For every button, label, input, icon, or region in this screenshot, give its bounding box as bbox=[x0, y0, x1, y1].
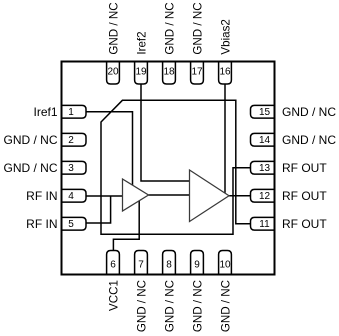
pin 19 bbox=[135, 63, 148, 85]
svg-text:GND / NC: GND / NC bbox=[163, 2, 176, 54]
svg-text:5: 5 bbox=[68, 219, 74, 230]
pin 15 bbox=[251, 105, 274, 118]
svg-text:GND / NC: GND / NC bbox=[107, 2, 120, 54]
pin 6 bbox=[107, 251, 120, 274]
wire: Iref1 pin1 to amp1 top edge bbox=[86, 112, 133, 185]
svg-text:Vbias2: Vbias2 bbox=[219, 19, 232, 54]
pin 17 bbox=[191, 63, 204, 85]
wire: amp1 output to amp2 input bbox=[149, 194, 190, 196]
svg-text:20: 20 bbox=[107, 67, 119, 78]
pin 1 bbox=[63, 105, 87, 118]
svg-text:GND / NC: GND / NC bbox=[163, 280, 176, 332]
pin 9 bbox=[191, 251, 204, 274]
svg-text:GND / NC: GND / NC bbox=[282, 133, 336, 147]
pin 4 bbox=[63, 189, 87, 202]
svg-text:GND / NC: GND / NC bbox=[4, 161, 58, 175]
pin 14 bbox=[251, 133, 274, 146]
svg-text:GND / NC: GND / NC bbox=[191, 280, 204, 332]
svg-text:RF IN: RF IN bbox=[26, 189, 57, 203]
wire: RF IN pin4 to amp1 input bbox=[86, 195, 123, 197]
svg-text:VCC1: VCC1 bbox=[107, 280, 120, 311]
svg-text:7: 7 bbox=[138, 260, 144, 271]
svg-text:15: 15 bbox=[259, 107, 271, 118]
wire: RF OUT bus pin13 loop around to pin11 bbox=[101, 100, 251, 234]
svg-text:GND / NC: GND / NC bbox=[282, 105, 336, 119]
wire: amp2 output to pin12 bbox=[229, 195, 251, 197]
svg-text:11: 11 bbox=[259, 219, 270, 230]
svg-text:GND / NC: GND / NC bbox=[219, 280, 232, 332]
svg-text:GND / NC: GND / NC bbox=[135, 280, 148, 332]
svg-text:14: 14 bbox=[259, 135, 271, 146]
svg-text:13: 13 bbox=[259, 163, 271, 174]
wire: Iref2 pin19 down then right to amp2 input edge bbox=[141, 84, 190, 181]
svg-text:19: 19 bbox=[135, 67, 147, 78]
svg-text:17: 17 bbox=[191, 67, 203, 78]
pin 2 bbox=[63, 133, 87, 146]
pin 11 bbox=[251, 217, 274, 230]
IC package body U1 bbox=[62, 62, 275, 275]
svg-text:8: 8 bbox=[166, 260, 172, 271]
svg-text:12: 12 bbox=[259, 191, 271, 202]
op-amp A1 first stage bbox=[123, 179, 149, 211]
pin 10 bbox=[219, 251, 232, 274]
svg-text:3: 3 bbox=[68, 163, 74, 174]
svg-text:Iref2: Iref2 bbox=[135, 31, 148, 54]
svg-text:4: 4 bbox=[68, 191, 74, 202]
svg-text:2: 2 bbox=[68, 135, 74, 146]
wire: RF IN pin5 tie up to pin4 wire bbox=[86, 196, 111, 223]
svg-text:1: 1 bbox=[68, 107, 74, 118]
pin 18 bbox=[163, 63, 176, 85]
svg-text:6: 6 bbox=[110, 260, 116, 271]
pin 12 bbox=[251, 189, 274, 202]
svg-text:GND / NC: GND / NC bbox=[4, 133, 58, 147]
pin 20 bbox=[107, 63, 120, 85]
svg-text:18: 18 bbox=[163, 67, 175, 78]
svg-text:10: 10 bbox=[219, 260, 231, 271]
pin 7 bbox=[135, 251, 148, 274]
pin 16 bbox=[219, 63, 232, 85]
svg-text:RF OUT: RF OUT bbox=[282, 161, 327, 175]
pin 8 bbox=[163, 251, 176, 274]
pin 5 bbox=[63, 217, 87, 230]
svg-text:RF OUT: RF OUT bbox=[282, 189, 327, 203]
op-amp A2 second stage bbox=[190, 170, 230, 222]
svg-text:RF IN: RF IN bbox=[26, 217, 57, 231]
pin 13 bbox=[251, 161, 274, 174]
svg-text:GND / NC: GND / NC bbox=[191, 2, 204, 54]
wire: Vbias2 pin16 down to amp2 top edge bbox=[224, 84, 226, 193]
svg-text:RF OUT: RF OUT bbox=[282, 217, 327, 231]
svg-text:9: 9 bbox=[194, 260, 200, 271]
svg-text:16: 16 bbox=[219, 67, 231, 78]
pin 3 bbox=[63, 161, 87, 174]
svg-text:Iref1: Iref1 bbox=[33, 105, 57, 119]
wire: VCC1 pin6 up to amp1 bottom edge bbox=[113, 201, 139, 251]
